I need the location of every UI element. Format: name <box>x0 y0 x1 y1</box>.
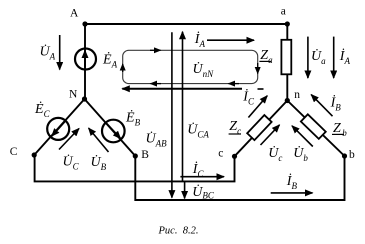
svg-text:U̇AB: U̇AB <box>146 131 168 149</box>
svg-text:a: a <box>281 6 286 18</box>
svg-text:n: n <box>294 89 300 101</box>
svg-text:b: b <box>349 149 355 161</box>
svg-text:U̇b: U̇b <box>293 145 308 163</box>
svg-text:İB: İB <box>330 94 342 112</box>
svg-text:B: B <box>141 149 149 161</box>
svg-text:U̇a: U̇a <box>311 48 326 66</box>
svg-text:İB: İB <box>286 173 298 191</box>
svg-text:Zb: Zb <box>333 121 347 138</box>
svg-text:U̇B: U̇B <box>91 154 107 172</box>
svg-text:U̇A: U̇A <box>40 43 56 61</box>
svg-text:U̇CA: U̇CA <box>187 121 209 139</box>
svg-text:Рис. 8.2.: Рис. 8.2. <box>158 225 199 236</box>
svg-text:İA: İA <box>339 48 351 66</box>
svg-text:U̇c: U̇c <box>268 145 282 163</box>
svg-text:Za: Za <box>260 48 273 65</box>
svg-text:N: N <box>69 89 78 101</box>
svg-text:İC: İC <box>242 89 255 107</box>
svg-text:ĖB: ĖB <box>125 110 141 128</box>
svg-text:ĖC: ĖC <box>34 101 51 119</box>
svg-text:C: C <box>10 146 18 158</box>
svg-text:c: c <box>218 148 223 160</box>
svg-text:U̇BC: U̇BC <box>192 184 215 201</box>
svg-text:U̇C: U̇C <box>63 153 80 171</box>
svg-text:ĖA: ĖA <box>102 52 118 70</box>
svg-text:İC: İC <box>192 161 205 179</box>
svg-text:U̇nN: U̇nN <box>193 61 215 79</box>
svg-text:İA: İA <box>194 31 206 49</box>
svg-text:A: A <box>70 8 79 20</box>
